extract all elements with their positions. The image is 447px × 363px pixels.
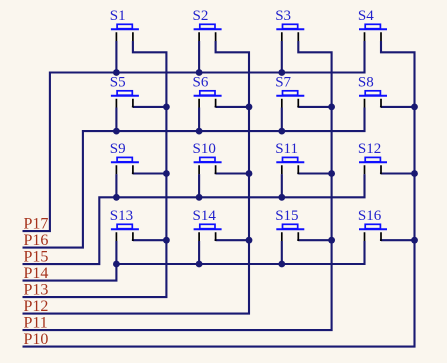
- svg-text:P15: P15: [24, 249, 49, 266]
- svg-text:P10: P10: [24, 331, 49, 348]
- svg-text:S12: S12: [358, 141, 381, 157]
- svg-text:P13: P13: [24, 282, 49, 299]
- svg-text:S7: S7: [275, 74, 291, 90]
- svg-text:P11: P11: [24, 315, 48, 332]
- svg-text:S6: S6: [193, 74, 209, 90]
- svg-text:P12: P12: [24, 298, 49, 315]
- svg-text:S4: S4: [358, 8, 374, 24]
- svg-text:S15: S15: [275, 208, 298, 224]
- svg-text:P14: P14: [24, 265, 49, 282]
- svg-text:S3: S3: [275, 8, 291, 24]
- svg-text:S9: S9: [110, 141, 126, 157]
- svg-text:S16: S16: [358, 208, 382, 224]
- svg-text:S5: S5: [110, 74, 126, 90]
- svg-text:S11: S11: [275, 141, 298, 157]
- svg-text:P17: P17: [24, 216, 49, 233]
- svg-text:S2: S2: [193, 8, 209, 24]
- svg-text:S1: S1: [110, 8, 126, 24]
- svg-text:S13: S13: [110, 208, 133, 224]
- svg-text:S8: S8: [358, 74, 374, 90]
- svg-text:S10: S10: [193, 141, 216, 157]
- svg-text:S14: S14: [193, 208, 217, 224]
- svg-text:P16: P16: [24, 232, 49, 249]
